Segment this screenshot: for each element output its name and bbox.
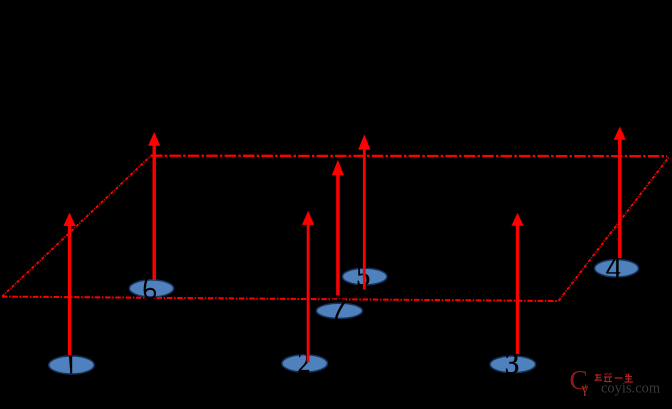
watermark text zhu (筑) [604, 374, 612, 382]
arrow A2 [302, 211, 314, 362]
arrow A7 [332, 160, 344, 296]
digit 7 [331, 300, 345, 318]
ellipse E4 [595, 260, 639, 277]
ellipse E5 [342, 268, 387, 285]
plane top edge [151, 155, 667, 158]
digit 4 [607, 258, 620, 278]
arrow A4 [614, 127, 626, 259]
plane left edge [2, 156, 151, 297]
ellipse E3 [490, 356, 536, 373]
ellipse E1 [49, 356, 95, 374]
ellipse E6 [129, 280, 173, 297]
arrow A1 [63, 213, 75, 356]
ellipse E2 [282, 355, 328, 372]
arrow A3 [511, 213, 523, 354]
svg-text:coyis.com: coyis.com [601, 380, 661, 396]
digit 6 [145, 279, 155, 299]
watermark text yi (一) [615, 377, 623, 379]
digit 1 [69, 355, 71, 373]
watermark text jian (建) [595, 374, 603, 381]
arrow A5 [358, 134, 370, 289]
svg-text:γ: γ [581, 381, 589, 397]
plane right edge [559, 157, 669, 301]
watermark text sheng (生) [625, 374, 634, 383]
ellipse E7 [316, 303, 362, 318]
plane bottom edge [2, 297, 558, 301]
arrow A6 [148, 132, 160, 280]
